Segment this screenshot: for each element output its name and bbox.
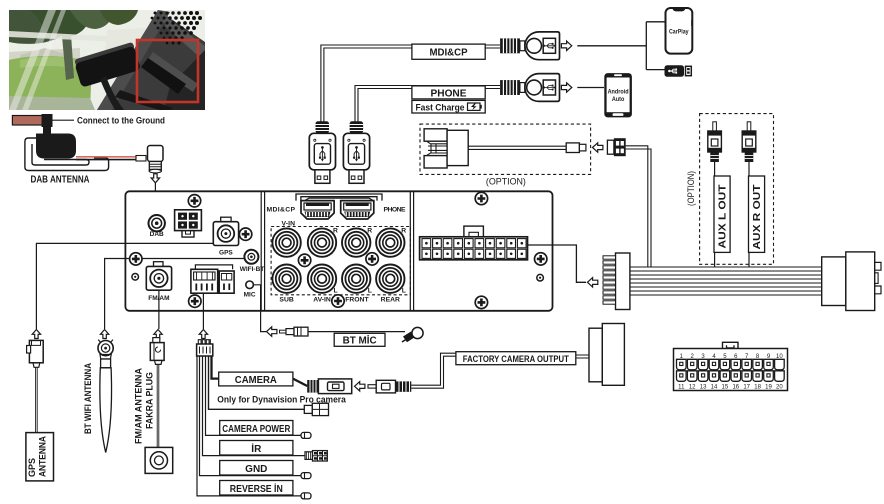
USB female round connector (MDI&CP) [500,32,559,60]
screw between RCA rows right [366,253,378,265]
RCA jack AV-IN [308,265,336,293]
arrow: FM/AM FAKRA up [154,330,162,339]
RCA jack R front [308,228,336,256]
wire: MIC to BT microphone plug [253,285,266,332]
wire: DAB plug into DAB port [154,183,156,215]
pinout pins row 1 (1-9) [677,359,785,370]
wire: to Android Auto [577,87,604,89]
adapter end plug [566,143,586,153]
svg-text:20: 20 [776,384,783,390]
wire: IR [203,356,306,456]
svg-text:Auto: Auto [612,96,625,103]
panel divider left [261,191,264,310]
FM/AM port [146,262,171,290]
BT WIFI antenna blade [100,368,112,453]
BT WIFI antenna connector [98,340,113,368]
svg-text:MIC: MIC [244,291,256,298]
arrow: harness plug to head unit [587,278,597,287]
RCA jack REAR L [376,265,404,293]
arrow: camera harness up [199,330,207,339]
DAB film antenna loop wire [25,138,109,171]
pinout pins row 2 (11-19) [677,371,785,382]
screw right section top [475,192,487,204]
USB female round connector (PHONE) [500,74,559,102]
svg-text:ANTENNA: ANTENNA [38,435,48,477]
screw right of socket [535,253,547,265]
arrow: BT mic plug to MIC [267,327,277,336]
svg-text:REAR: REAR [381,297,400,304]
USB port mounting bracket [296,194,382,201]
svg-text:16: 16 [732,384,739,390]
GPS antenna box [26,433,54,481]
20-pin harness plug (comb) [603,253,630,310]
screw right of GPS [239,228,251,240]
svg-text:İR: İR [251,442,262,455]
svg-text:DAB ANTENNA: DAB ANTENNA [31,175,90,186]
screw bottom center RCA [332,295,344,307]
label box: MDI&CP [412,44,485,59]
spade terminal: REVERSE IN [301,493,311,499]
label box: FACTORY CAMERA OUTPUT [456,352,576,365]
svg-text:Connect to the Ground: Connect to the Ground [77,116,165,126]
svg-text:AV-IN: AV-IN [313,297,331,304]
svg-text:14: 14 [711,384,718,390]
svg-text:19: 19 [765,384,772,390]
svg-text:Android: Android [608,89,629,96]
panel divider right [410,191,413,310]
svg-text:L: L [402,287,406,294]
RCA female coupler (camera input) [307,379,351,394]
svg-text:(OPTION): (OPTION) [686,171,696,206]
small hole right section [537,274,544,281]
svg-text:GPS: GPS [27,458,37,477]
pinout numbers row 1 [680,354,784,360]
wire: GND [200,356,302,476]
svg-text:R: R [401,227,406,234]
DAB antenna amplifier module [36,134,76,159]
USB port PHONE (female, on panel) [341,201,374,219]
RCA jack R rear [376,228,404,256]
small hole left [132,274,139,281]
wire: MDI&CP USB cable [321,45,500,122]
svg-text:PHONE: PHONE [431,88,467,99]
RCA jack FRONT L [342,265,370,293]
halftone dots on photo top right [151,11,202,45]
svg-text:GPS: GPS [219,250,233,257]
svg-text:17: 17 [743,384,750,390]
wire: factory camera output lead [411,353,456,388]
arrow: BT WIFI antenna up [100,330,108,339]
svg-text:(OPTION): (OPTION) [486,177,526,187]
svg-text:BT WIFI ANTENNA: BT WIFI ANTENNA [83,363,94,434]
svg-text:12: 12 [689,384,696,390]
RCA jack V-IN top [272,228,300,256]
FM/AM FAKRA connector [150,338,164,365]
label box: REVERSE IN [220,481,293,496]
screw left mid panel [130,253,142,265]
svg-text:FACTORY CAMERA OUTPUT: FACTORY CAMERA OUTPUT [463,354,569,365]
svg-text:FRONT: FRONT [345,297,369,304]
20-pin pinout table frame [674,349,788,391]
svg-text:18: 18 [754,384,761,390]
screw above 4-pin connector [188,195,200,207]
svg-text:MDI&CP: MDI&CP [430,48,468,59]
RCA jack R mid [342,228,370,256]
wire: option port to harness [626,146,651,267]
DAB antenna coax cable (red/black) [76,156,146,162]
svg-text:DAB: DAB [150,231,164,238]
CarPlay phone [666,8,693,54]
red highlight rectangle on photo [137,40,198,102]
svg-text:FAKRA PLUG: FAKRA PLUG [145,372,156,429]
RCA plug AUX R [742,122,756,162]
photo: DAB antenna installed on windshield [9,10,205,112]
svg-text:AUX L OUT: AUX L OUT [718,185,729,249]
WIFI-BT port [244,250,258,264]
wire: GPS antenna lead [36,367,38,432]
svg-text:AUX R OUT: AUX R OUT [752,185,763,250]
svg-text:13: 13 [700,384,707,390]
svg-text:MDI&CP: MDI&CP [267,207,296,214]
svg-text:R: R [333,227,338,234]
USB plug A (MDI&CP) [309,121,335,183]
svg-text:L: L [334,287,338,294]
factory camera connector [589,324,624,386]
wire: FM/AM antenna lead [157,364,159,447]
svg-text:FM/AM ANTENNA: FM/AM ANTENNA [134,368,145,444]
wire: box to factory connector [576,355,589,358]
label box: IR [220,441,293,456]
spade terminal: CAMERA POWER [301,432,311,438]
label box: AUX L OUT [714,176,730,252]
RCA plug AUX L [708,122,722,162]
wire: Dynavision Pro camera power plug [209,356,305,409]
arrow: DAB plug to head unit [151,174,159,183]
GPS port (Fakra) [213,217,238,245]
arrow: adapter to option port [593,143,603,152]
dashed box around RCA jacks [271,227,410,295]
dashed option box: AUX outputs [700,114,774,265]
harness wires bundle [630,267,822,295]
svg-text:FM/AM: FM/AM [148,295,169,302]
USB port MDI&CP (female, on panel) [301,201,334,219]
wire: AUX L lead [714,162,716,267]
main 20-pin socket tab [464,226,484,237]
svg-text:V-IN: V-IN [282,220,296,227]
arrow: GPS antenna up [32,330,40,339]
USB stick [665,65,692,77]
svg-text:BT MİC: BT MİC [343,334,377,347]
leader line to ground label [53,119,75,121]
wire: CAMERA POWER [206,356,302,436]
wire: multi-pin socket to camera harness [202,293,204,329]
BT microphone 3.5mm plug [280,327,309,336]
head unit rear panel frame [125,191,552,310]
harness right connector [822,252,881,311]
svg-text:REVERSE İN: REVERSE İN [230,482,283,495]
adapter connector body [424,129,468,168]
screw right section bottom [475,296,487,308]
ground strap (Connect to the Ground) [12,114,52,135]
label box: PHONE [412,86,485,99]
arrow: factory camera plug to coupler [355,382,365,391]
svg-text:CAMERA POWER: CAMERA POWER [222,424,291,435]
FM/AM antenna base [145,447,173,473]
svg-text:WIFI-BT: WIFI-BT [240,266,265,273]
screw between RCA rows left [298,254,310,266]
label box: Fast Charge [412,100,485,113]
multi-pin harness socket on panel [191,265,234,293]
IR jack connector [305,451,327,461]
wire: BT mic cable [308,331,405,333]
adapter cable wires [468,146,566,149]
svg-text:CAMERA: CAMERA [235,375,277,386]
Android Auto phone [604,73,632,117]
wire: 20-pin socket to harness [528,245,587,282]
GPS antenna plug [27,340,44,367]
svg-text:GND: GND [245,464,267,475]
label box: GND [220,461,293,476]
DAB SMB right-angle plug [148,146,164,173]
svg-text:CarPlay: CarPlay [669,29,689,36]
RCA male plug (factory camera) [368,380,411,393]
labels: L channel markers [334,287,406,294]
dashed option box: adapter cable [420,124,591,174]
wire: PHONE USB cable [355,86,500,122]
svg-text:11: 11 [678,384,685,390]
wire: WIFI-BT port to BT WIFI antenna [105,259,245,330]
arrow: MDI&CP to CarPlay [561,41,571,50]
20-pin pinout table tab [723,342,739,350]
svg-text:PHONE: PHONE [384,207,406,214]
svg-text:Fast Charge: Fast Charge [416,101,465,112]
svg-text:L: L [368,287,372,294]
wire: GPS port to GPS antenna [36,243,213,329]
arrow: PHONE to Android Auto [561,83,571,92]
wire: to CarPlay / USB stick branch [577,22,665,70]
label box: CAMERA POWER [220,421,293,436]
screw below multi-pin socket [189,295,201,307]
svg-text:15: 15 [722,384,729,390]
spade terminal: GND [301,473,311,479]
RCA jack SUB [272,265,300,293]
main 20-pin socket on panel [420,237,528,260]
label box: AUX R OUT [749,176,765,252]
BT microphone [402,327,423,342]
wire: CAMERA (thick) [212,356,308,386]
wire: REVERSE IN [197,356,301,496]
pinout numbers row 2 [678,384,783,390]
option port connector [607,138,625,156]
wire: AUX R lead [748,162,750,267]
camera harness plug [197,340,213,356]
label box: BT MIC [334,333,385,346]
svg-text:SUB: SUB [279,297,293,304]
MIC hole [246,281,254,289]
labels: R channel markers [333,227,406,234]
DAB port [149,215,165,231]
wire: FM/AM port to FAKRA plug [158,282,160,329]
label box: CAMERA [219,372,293,386]
svg-text:R: R [367,227,372,234]
2-pin camera power connector [304,403,328,415]
4-pin power connector [175,210,202,237]
USB plug B (PHONE) [343,121,369,183]
